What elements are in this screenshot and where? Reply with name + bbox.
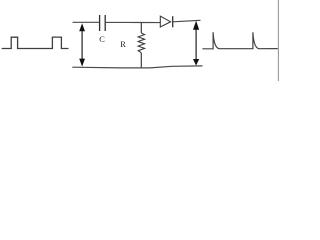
wire bottom rail [72, 66, 202, 68]
input arrow head up [79, 23, 85, 31]
input pulse waveform [2, 37, 69, 48]
wire top rail [73, 21, 100, 23]
input arrow shaft [81, 30, 83, 61]
output arrow shaft [195, 28, 197, 61]
output arrow head up [193, 21, 199, 30]
wire diode to right [173, 20, 201, 22]
svg-text:R: R [120, 40, 126, 49]
table border right [277, 0, 279, 81]
diode D1 triangle [160, 16, 170, 27]
resistor R1 top lead [140, 23, 142, 34]
wire cap to diode [106, 21, 160, 23]
diode D1 cathode bar [172, 16, 174, 27]
output arrow head down [193, 59, 199, 66]
capacitor C1 left plate [99, 15, 101, 31]
input arrow head down [79, 59, 85, 67]
capacitor C1 right plate [104, 15, 106, 31]
resistor R1 zigzag [138, 33, 144, 53]
svg-text:C: C [99, 35, 105, 44]
output spike waveform [202, 32, 277, 49]
resistor R1 bottom lead [140, 53, 142, 68]
